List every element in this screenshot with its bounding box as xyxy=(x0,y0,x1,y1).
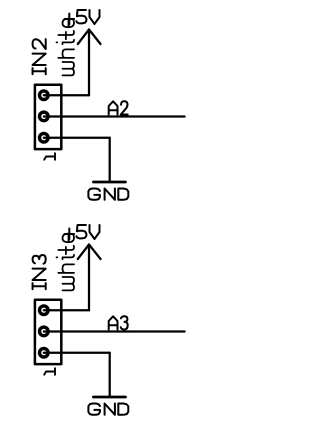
glyph V xyxy=(90,10,100,24)
wire pin3 to GND (horizontal) xyxy=(44,137,110,139)
GND symbol bar xyxy=(93,181,125,184)
net label A2 xyxy=(109,101,128,114)
glyph t xyxy=(58,246,74,255)
+5V label xyxy=(65,225,100,240)
wire pin3 to GND (vertical) xyxy=(109,353,111,397)
wire pin2 to A3 net xyxy=(44,330,185,332)
wire pin3 to GND (vertical) xyxy=(109,138,111,182)
glyph w xyxy=(62,277,74,290)
glyph A xyxy=(109,101,118,114)
pin 3 pad (bottom) xyxy=(40,348,49,357)
connector J3 (IN3) body xyxy=(35,300,61,364)
glyph A xyxy=(109,316,118,329)
glyph 5 xyxy=(76,225,86,238)
glyph + xyxy=(65,14,75,25)
wire pin1 to +5V (vertical) xyxy=(88,245,90,311)
glyph D xyxy=(118,189,128,200)
glyph e xyxy=(62,234,74,243)
pin 1 number label xyxy=(44,368,55,375)
glyph I xyxy=(33,283,46,289)
wire pin1 to +5V (horizontal) xyxy=(44,94,89,96)
wire pin3 to GND (horizontal) xyxy=(44,352,110,354)
glyph 2 xyxy=(33,39,46,49)
net label A3 xyxy=(109,316,128,329)
pin 2 pad (middle) xyxy=(40,112,49,121)
GND symbol bar xyxy=(93,396,125,399)
pin 1 pad (top) xyxy=(40,91,49,100)
glyph 5 xyxy=(76,10,86,23)
glyph G xyxy=(88,404,100,415)
GND label xyxy=(88,189,128,200)
net label "white" (rotated) xyxy=(56,19,74,76)
wire pin2 to A2 net xyxy=(44,115,185,117)
glyph N xyxy=(33,269,46,280)
glyph i xyxy=(56,40,74,45)
+5V supply arrow xyxy=(78,245,101,260)
glyph 2 xyxy=(121,101,128,114)
glyph w xyxy=(62,62,74,75)
wire pin1 to +5V (horizontal) xyxy=(44,309,89,311)
label IN3 xyxy=(33,255,46,289)
glyph V xyxy=(90,225,100,239)
label IN2 xyxy=(33,39,46,74)
glyph e xyxy=(62,19,74,28)
glyph + xyxy=(65,229,75,240)
glyph G xyxy=(88,189,100,200)
glyph 3 xyxy=(121,316,128,329)
pin 3 pad (bottom) xyxy=(40,133,49,142)
wire pin1 to +5V (vertical) xyxy=(88,30,90,96)
glyph D xyxy=(118,404,128,415)
glyph i xyxy=(56,255,74,260)
glyph 3 xyxy=(33,255,46,264)
+5V supply arrow xyxy=(78,30,101,45)
glyph I xyxy=(33,68,46,74)
GND label xyxy=(88,404,128,415)
connector J2 (IN2) body xyxy=(35,85,61,149)
glyph h xyxy=(58,264,74,273)
pin 1 pad (top) xyxy=(40,306,49,315)
+5V label xyxy=(65,10,100,25)
pin 2 pad (middle) xyxy=(40,327,49,336)
pin 1 number label xyxy=(44,153,55,160)
glyph h xyxy=(58,49,74,58)
glyph N xyxy=(105,404,115,415)
glyph N xyxy=(33,54,46,65)
net label "white" (rotated) xyxy=(56,234,74,291)
glyph t xyxy=(58,31,74,40)
glyph N xyxy=(105,189,115,200)
